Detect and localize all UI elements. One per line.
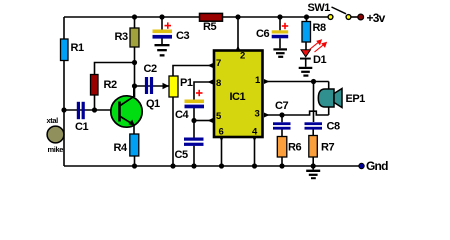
svg-text:8: 8 <box>216 78 221 89</box>
wire P1 bottom to ground rail <box>172 97 174 166</box>
svg-text:C3: C3 <box>176 30 189 42</box>
wire pin 6 to ground rail <box>221 138 223 166</box>
capacitor C5 <box>184 138 204 146</box>
switch SW1 lever <box>332 7 347 14</box>
wire R7 to ground rail <box>312 157 314 166</box>
svg-text:SW1: SW1 <box>308 2 331 14</box>
pin tick 7 <box>208 63 214 68</box>
C6 polarity plus <box>282 23 288 29</box>
node C4/C5 pin5 <box>191 118 196 123</box>
node R3 top <box>132 14 137 19</box>
svg-text:+3v: +3v <box>367 11 386 25</box>
svg-text:Gnd: Gnd <box>366 159 388 173</box>
wire C6 to ground <box>279 38 281 48</box>
svg-text:R1: R1 <box>71 42 84 54</box>
wire pin 1 to EP1 <box>264 81 329 83</box>
electret mic xtal <box>47 126 64 143</box>
ground below C3 <box>155 44 170 57</box>
wire C5 to ground rail <box>193 146 195 166</box>
svg-text:D1: D1 <box>313 54 326 66</box>
svg-text:R6: R6 <box>288 142 301 154</box>
capacitor C1 <box>77 102 85 119</box>
resistor R5 <box>200 13 223 21</box>
resistor R2 <box>91 75 99 96</box>
node R6 gnd <box>279 163 284 168</box>
capacitor C4 electrolytic <box>185 100 205 109</box>
svg-text:R2: R2 <box>104 79 117 91</box>
terminal +3v <box>358 14 364 20</box>
svg-text:C7: C7 <box>275 100 288 112</box>
svg-text:C8: C8 <box>327 121 340 133</box>
wire R4 to ground rail <box>134 156 136 166</box>
node collector/C2 <box>132 83 137 88</box>
svg-text:P1: P1 <box>180 77 193 89</box>
C3 polarity plus <box>165 22 172 28</box>
wire pin 2 to top rail <box>237 17 239 49</box>
svg-text:4: 4 <box>252 127 258 138</box>
resistor R4 <box>130 134 139 156</box>
IC1 body <box>214 51 263 138</box>
node C6 top <box>277 14 282 19</box>
svg-text:R8: R8 <box>313 22 326 34</box>
wire left rail <box>63 17 65 166</box>
resistor R6 <box>277 137 287 158</box>
resistor R7 <box>309 136 318 158</box>
wire pin 3 with hop over C8 line <box>264 111 329 115</box>
node mic/C1 <box>61 107 66 112</box>
node R8 top <box>304 14 309 19</box>
node R2/R3 <box>132 60 137 65</box>
svg-text:C6: C6 <box>256 28 269 40</box>
ground below D1 <box>299 67 313 77</box>
pin tick 4 <box>252 136 257 142</box>
earphone EP1 <box>318 89 342 108</box>
svg-text:R7: R7 <box>321 142 334 154</box>
svg-text:xtal: xtal <box>47 116 59 125</box>
wire C3 stub <box>161 17 163 30</box>
wire R6 to ground rail <box>281 157 283 166</box>
switch SW1 terminal 1 <box>328 15 333 20</box>
node C5 gnd <box>191 163 196 168</box>
transistor Q1 <box>111 88 142 127</box>
wire emitter to R4 <box>133 124 135 134</box>
wire R2 bottom to base node <box>94 95 96 110</box>
capacitor C7 <box>273 122 291 129</box>
svg-text:IC1: IC1 <box>230 91 246 103</box>
trimmer P1 wiper arrow <box>163 83 170 89</box>
svg-text:3: 3 <box>255 109 260 120</box>
wire node to C8 <box>313 82 315 123</box>
wire SW1 to +3v terminal <box>351 16 359 18</box>
svg-text:EP1: EP1 <box>346 93 366 105</box>
node R4 gnd <box>132 163 137 168</box>
ground below R7 <box>306 170 320 180</box>
svg-text:5: 5 <box>216 111 222 122</box>
pin tick 1 <box>264 79 270 84</box>
svg-text:mike: mike <box>48 145 64 154</box>
node pin1/C8 <box>311 79 316 84</box>
svg-text:Q1: Q1 <box>146 98 160 110</box>
node pin3/C7 <box>279 112 284 117</box>
node P1 gnd <box>170 163 175 168</box>
wire C3 to ground <box>161 39 163 45</box>
resistor R8 <box>302 22 311 43</box>
svg-text:2: 2 <box>240 51 245 62</box>
wire top rail <box>64 16 330 18</box>
wire C7 to R6 <box>281 130 283 137</box>
resistor R1 <box>61 39 69 61</box>
wire D1 to ground <box>305 59 307 67</box>
pin tick 8 <box>208 80 214 85</box>
node C3 top <box>159 14 164 19</box>
node pin6 gnd <box>219 163 224 168</box>
D1 light arrows <box>310 40 327 52</box>
capacitor C6 electrolytic <box>272 30 289 38</box>
resistor R3 <box>130 28 139 47</box>
svg-text:R5: R5 <box>203 21 216 33</box>
terminal Gnd <box>359 163 364 168</box>
switch SW1 terminal 2 <box>346 15 351 20</box>
wire EP1 bottom lead <box>328 107 330 116</box>
wire C7 stub <box>281 115 283 122</box>
svg-text:1: 1 <box>255 75 261 86</box>
svg-text:R3: R3 <box>115 31 128 43</box>
wire C4 to C5 <box>193 108 195 138</box>
wire pin 4 to ground rail <box>254 138 256 166</box>
wire C2 coupling <box>135 85 164 87</box>
pin tick 5 <box>208 118 214 123</box>
node pin4 gnd <box>252 163 257 168</box>
wire base <box>64 109 120 111</box>
wire R8 to D1 <box>305 42 307 50</box>
wire R2 top branch <box>95 63 135 75</box>
pin tick 3 <box>264 113 270 118</box>
svg-text:C4: C4 <box>175 109 189 121</box>
wire bottom ground rail <box>64 165 361 167</box>
wire C8 to R7 <box>312 129 314 135</box>
svg-text:C5: C5 <box>175 149 188 161</box>
node R7 gnd <box>311 163 316 168</box>
capacitor C3 electrolytic <box>153 30 173 39</box>
pin tick 6 <box>219 136 224 142</box>
LED D1 <box>300 50 311 60</box>
node R2 bottom <box>92 107 97 112</box>
wire P1 top to pin 7 <box>173 66 210 77</box>
svg-text:C2: C2 <box>144 63 157 75</box>
ground below C6 <box>273 48 287 58</box>
wire C6 stub <box>279 17 281 30</box>
wire pin 5 <box>194 120 210 122</box>
wire R3/collector line <box>134 17 136 97</box>
svg-text:C1: C1 <box>75 121 88 133</box>
wire pin 8 to C4 <box>194 82 210 100</box>
C4 polarity plus <box>196 90 203 96</box>
capacitor C2 <box>145 77 153 94</box>
wire R8 stub from top rail <box>306 17 308 22</box>
capacitor C8 <box>305 122 323 129</box>
pin tick 2 <box>236 46 241 52</box>
wire ground symbol stem below rail <box>312 166 314 170</box>
svg-text:R4: R4 <box>114 142 128 154</box>
trimmer P1 <box>169 76 178 97</box>
svg-text:6: 6 <box>219 127 224 138</box>
svg-text:7: 7 <box>216 58 221 69</box>
node pin2 top <box>235 14 240 19</box>
wire EP1 top lead <box>328 82 330 90</box>
